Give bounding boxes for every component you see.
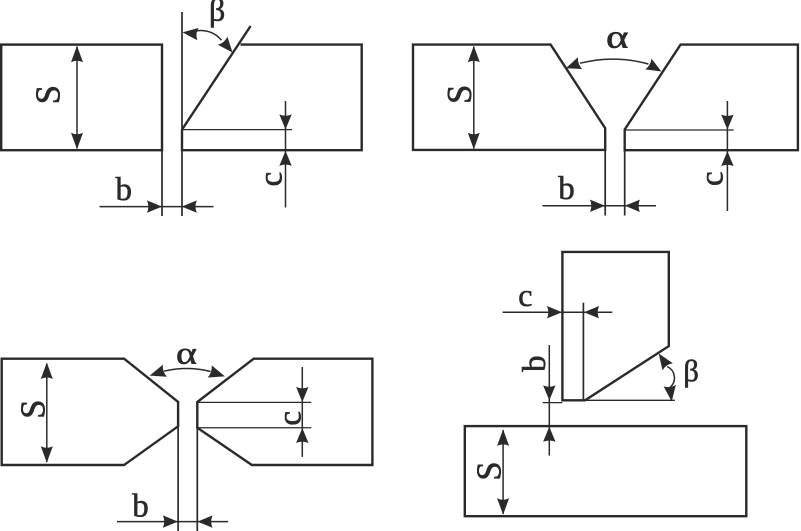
upper plate (T-joint): [562, 252, 668, 400]
bottom edge extension left: [543, 402, 563, 404]
dimension c arrows (top-left): [285, 101, 287, 208]
dimension S arrow (top-left): [76, 47, 78, 149]
root face top line: [197, 401, 311, 403]
bottom edge extension right (angle reference): [585, 399, 675, 401]
dimension S arrow (T-joint): [502, 430, 504, 514]
svg-text:α: α: [176, 335, 197, 370]
dimension b arrows (V-groove): [543, 205, 657, 207]
left root edge extension: [177, 426, 179, 531]
right root edge extension: [196, 428, 198, 531]
right root edge extension: [624, 150, 626, 215]
svg-text:c: c: [518, 277, 532, 313]
root face line: [182, 129, 292, 131]
root face line (V-groove): [625, 129, 734, 131]
left plate (X-groove): [2, 359, 178, 465]
right plate (V-groove): [625, 45, 798, 151]
dimension c arrows (X-groove): [301, 367, 303, 457]
left plate (V-groove): [413, 45, 605, 150]
svg-text:b: b: [115, 172, 132, 208]
angle arc beta (top-left): [196, 30, 222, 40]
bevel edge of right plate: [182, 26, 251, 130]
svg-text:b: b: [132, 489, 149, 525]
svg-text:S: S: [14, 400, 52, 419]
svg-text:b: b: [517, 355, 553, 372]
dimension c arrows (T-joint): [503, 311, 613, 313]
svg-text:c: c: [254, 172, 290, 187]
dimension b arrows (X-groove): [117, 521, 228, 523]
right plate (top-left joint): [182, 45, 362, 151]
svg-text:β: β: [209, 0, 225, 27]
svg-text:b: b: [558, 171, 575, 207]
left plate (top-left joint): [1, 45, 162, 151]
dimension S arrow (X-groove): [46, 364, 48, 463]
svg-text:c: c: [273, 411, 309, 426]
angle arc beta (T-joint): [667, 367, 674, 388]
angle arc alpha (X-groove): [164, 369, 211, 372]
right plate (X-groove): [197, 359, 372, 465]
svg-text:c: c: [695, 171, 731, 186]
svg-text:S: S: [441, 85, 479, 104]
angle arc alpha (V-groove): [580, 59, 648, 64]
inner reference line c: [582, 303, 584, 401]
dimension b arrows (top-left): [100, 206, 214, 208]
left root edge extension: [604, 150, 606, 216]
root face bottom line: [197, 427, 311, 429]
svg-text:α: α: [606, 19, 628, 55]
svg-text:S: S: [30, 85, 68, 104]
left plate edge extension line: [161, 150, 163, 216]
lower plate (T-joint): [465, 426, 747, 516]
vertical reference line at joint: [181, 12, 183, 216]
dimension S arrow (V-groove): [473, 47, 475, 149]
dimension c arrows (V-groove): [726, 101, 728, 211]
svg-text:β: β: [683, 354, 699, 388]
svg-text:S: S: [471, 461, 509, 480]
dimension b arrows (T-joint): [548, 345, 550, 427]
